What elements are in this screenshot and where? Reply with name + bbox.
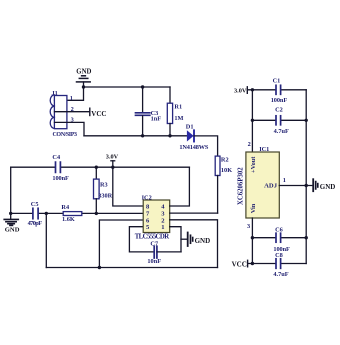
junction dot C6 right: [305, 236, 308, 239]
ground (left earth GND symbol): [4, 213, 18, 225]
wire IC1 pin2 vertical: [251, 90, 253, 152]
wire IC2 pin1 down to C7/GND: [170, 227, 181, 252]
wire J1 pin2 to VCC: [55, 111, 90, 113]
svg-text:TLC555CDR: TLC555CDR: [135, 234, 170, 241]
capacitor C2: [276, 116, 281, 125]
svg-text:4.7uF: 4.7uF: [273, 271, 288, 278]
junction dot C2 right: [305, 119, 308, 122]
svg-text:R4: R4: [61, 204, 70, 211]
svg-text:R2: R2: [221, 157, 229, 164]
junction dot C6 left: [251, 236, 254, 239]
svg-text:GND: GND: [5, 227, 20, 234]
wire R2 bottom to IC2 pin3 corner: [217, 176, 219, 214]
svg-text:C6: C6: [275, 227, 283, 234]
wire C2 row y=120.3: [252, 119, 306, 121]
svg-text:10K: 10K: [221, 167, 232, 174]
svg-text:3: 3: [247, 223, 250, 230]
svg-text:IC2: IC2: [142, 195, 152, 202]
svg-text:1.6K: 1.6K: [62, 216, 75, 223]
svg-text:GND: GND: [195, 237, 211, 245]
junction dot IC2 pin6 on bottom rail: [98, 266, 101, 269]
wire J1 pin3 down to bottom rail: [55, 122, 85, 135]
junction dot C5-R4 node to pins 2/6: [45, 212, 48, 215]
wire 3.0V rail y=167.2 (left): [11, 166, 190, 168]
wire C8 row y=263.5: [248, 263, 307, 265]
resistor R2: [215, 156, 220, 175]
wire IC1 pin1 (ADJ) to GND rail: [279, 185, 312, 187]
junction dot R3 top: [95, 166, 98, 169]
capacitor C3: [136, 87, 150, 136]
svg-text:GND: GND: [76, 69, 91, 76]
capacitor C5: [33, 208, 38, 218]
svg-text:D1: D1: [186, 123, 194, 130]
wire IC2 pin6 down to bottom rail: [99, 220, 143, 268]
wire C7 to IC2 pin1 vertical: [157, 251, 181, 253]
wire right GND rail: [305, 90, 307, 264]
svg-text:10nF: 10nF: [147, 258, 161, 265]
wire J1 pin1 to top rail: [55, 87, 84, 100]
junction dot IC1 pin2 branch: [251, 88, 254, 91]
wire C6 row y=237.7: [252, 237, 306, 239]
ground (bar GND symbol near IC2): [181, 233, 193, 247]
svg-text:R1: R1: [174, 104, 182, 111]
svg-text:100nF: 100nF: [52, 175, 69, 182]
junction dot GND/C4/C5: [9, 212, 12, 215]
connector J1 body: [50, 95, 67, 129]
op-amp (timer) IC2 body: [143, 200, 170, 233]
junction dot C3 bottom: [141, 134, 144, 137]
power 3.0V tick (right): [246, 87, 248, 94]
ground (bar GND symbol right): [313, 179, 318, 191]
svg-text:C7: C7: [150, 240, 158, 247]
wire bottom rail y=267.5: [46, 267, 217, 269]
capacitor C6: [276, 233, 281, 242]
svg-text:1nF: 1nF: [151, 115, 162, 122]
power VCC tick (bottom right): [247, 260, 249, 267]
svg-text:1: 1: [283, 177, 286, 184]
svg-text:C4: C4: [52, 154, 61, 161]
svg-text:J1: J1: [52, 90, 58, 97]
junction dot 3.0V / IC2 pin8 branch: [111, 166, 114, 169]
svg-text:R3: R3: [100, 181, 108, 188]
wire 3.0V to C1 and right rail: [247, 89, 306, 91]
svg-text:GND: GND: [320, 183, 336, 191]
resistor R1: [167, 87, 172, 136]
svg-text:XC6206P302: XC6206P302: [237, 167, 244, 205]
svg-text:1N4148WS: 1N4148WS: [179, 144, 208, 151]
regulator IC1 body: [246, 152, 279, 218]
svg-text:1M: 1M: [174, 115, 183, 122]
junction dot R1 bottom: [168, 134, 171, 137]
junction dot C3 top: [141, 85, 144, 88]
svg-text:C1: C1: [273, 77, 281, 84]
wire IC1 pin3 (Vin) vertical: [251, 218, 253, 264]
svg-text:VCC: VCC: [91, 110, 106, 118]
svg-text:3.0V: 3.0V: [106, 154, 119, 161]
wire IC2 pin4 up to 3.0V rail: [170, 167, 190, 206]
svg-text:470pF: 470pF: [28, 220, 43, 227]
svg-text:2: 2: [248, 141, 251, 148]
svg-text:4.7uF: 4.7uF: [274, 128, 289, 135]
wire y=213.4 run (GND - C5 - R4 - IC2 pin7): [11, 212, 144, 214]
wire top rail y=87: [84, 86, 171, 88]
junction dot C8 left: [251, 262, 254, 265]
resistor R3: [94, 167, 100, 213]
ground (top-left power GND symbol): [77, 76, 91, 87]
capacitor C4: [56, 162, 61, 172]
svg-text:ADJ: ADJ: [264, 182, 278, 189]
junction dot C2 left: [251, 119, 254, 122]
svg-text:C5: C5: [31, 201, 39, 208]
svg-text:CON/SIP3: CON/SIP3: [53, 132, 78, 138]
resistor R4: [63, 212, 82, 216]
node A junction dot (GND / top rail / J1 pin1): [82, 85, 85, 88]
svg-text:1: 1: [161, 224, 164, 231]
svg-text:+Vout: +Vout: [250, 156, 257, 173]
svg-text:100nF: 100nF: [271, 97, 288, 104]
wire bottom rail y=135.8: [84, 135, 187, 137]
junction dot R3 bottom: [95, 212, 98, 215]
power 3.0V tick (left): [111, 161, 115, 167]
capacitor C8: [276, 259, 281, 269]
wire IC2 pin5 to C7: [129, 227, 154, 252]
svg-text:3.0V: 3.0V: [234, 88, 247, 95]
wire IC2 pin8 branch from 3.0V rail: [113, 167, 143, 206]
svg-text:330R: 330R: [98, 192, 112, 199]
svg-text:C2: C2: [275, 107, 283, 114]
svg-text:IC1: IC1: [259, 146, 269, 153]
capacitor C1: [276, 85, 281, 94]
diode D1: [187, 130, 194, 141]
junction dot pin1/rail: [305, 184, 308, 187]
capacitor C7: [154, 246, 157, 258]
wire left vertical C4 to C5/GND: [10, 167, 12, 213]
wire D1 cathode to R2 top: [194, 136, 218, 156]
wire IC2 pin2 down to bottom rail: [170, 220, 218, 268]
svg-text:VCC: VCC: [232, 260, 247, 268]
svg-text:1: 1: [70, 95, 73, 102]
svg-text:Vin: Vin: [250, 203, 257, 213]
svg-text:C8: C8: [275, 252, 283, 259]
wire IC2 pin3 to R2 bottom: [170, 212, 218, 214]
wire C5 node down to pins2/6 rail: [45, 213, 47, 267]
power VCC tick (J1 pin2): [89, 108, 91, 115]
